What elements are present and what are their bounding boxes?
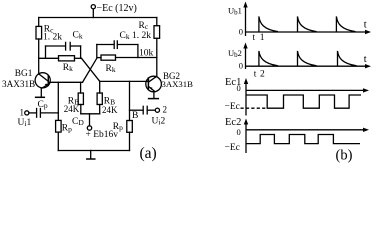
svg-text:Rc: Rc <box>139 21 149 31</box>
svg-text:BG1: BG1 <box>15 69 33 79</box>
svg-text:1. 2k: 1. 2k <box>43 33 62 43</box>
svg-text:Ub2: Ub2 <box>228 48 242 59</box>
svg-text:2: 2 <box>260 70 265 80</box>
svg-text:(b): (b) <box>336 148 353 164</box>
svg-text:Ck 1. 2k: Ck 1. 2k <box>120 31 152 41</box>
svg-text:(a): (a) <box>140 145 157 162</box>
svg-text:Rp: Rp <box>113 122 123 132</box>
svg-text:Ub1: Ub1 <box>228 6 242 17</box>
svg-text:−Ec (12v): −Ec (12v) <box>97 3 137 14</box>
svg-text:Ui1: Ui1 <box>18 118 32 128</box>
svg-text:24K: 24K <box>64 104 80 114</box>
svg-text:Cp: Cp <box>38 100 48 110</box>
svg-text:24K: 24K <box>102 105 118 115</box>
svg-text:10k: 10k <box>139 49 154 59</box>
svg-text:Rk: Rk <box>63 63 73 73</box>
svg-text:0: 0 <box>239 27 243 37</box>
svg-text:Rp: Rp <box>62 124 72 134</box>
svg-text:Ck: Ck <box>73 31 83 41</box>
svg-text:Ui2: Ui2 <box>152 117 166 127</box>
svg-text:−Ec: −Ec <box>225 143 240 153</box>
svg-text:t: t <box>364 19 367 30</box>
svg-text:t: t <box>253 33 256 43</box>
svg-text:3AX31B: 3AX31B <box>162 79 194 89</box>
svg-text:B: B <box>132 111 138 121</box>
svg-text:1: 1 <box>260 33 265 43</box>
svg-text:0: 0 <box>239 61 243 71</box>
svg-text:2: 2 <box>163 105 168 115</box>
svg-text:0: 0 <box>237 127 241 137</box>
svg-text:Rk: Rk <box>106 64 116 74</box>
svg-text:1: 1 <box>20 108 25 118</box>
svg-text:0: 0 <box>237 83 241 93</box>
svg-text:−Ec: −Ec <box>225 102 240 112</box>
svg-text:t: t <box>254 70 257 80</box>
svg-text:3AX31B: 3AX31B <box>2 79 35 89</box>
svg-text:CD: CD <box>72 117 84 127</box>
svg-text:t: t <box>364 54 367 65</box>
